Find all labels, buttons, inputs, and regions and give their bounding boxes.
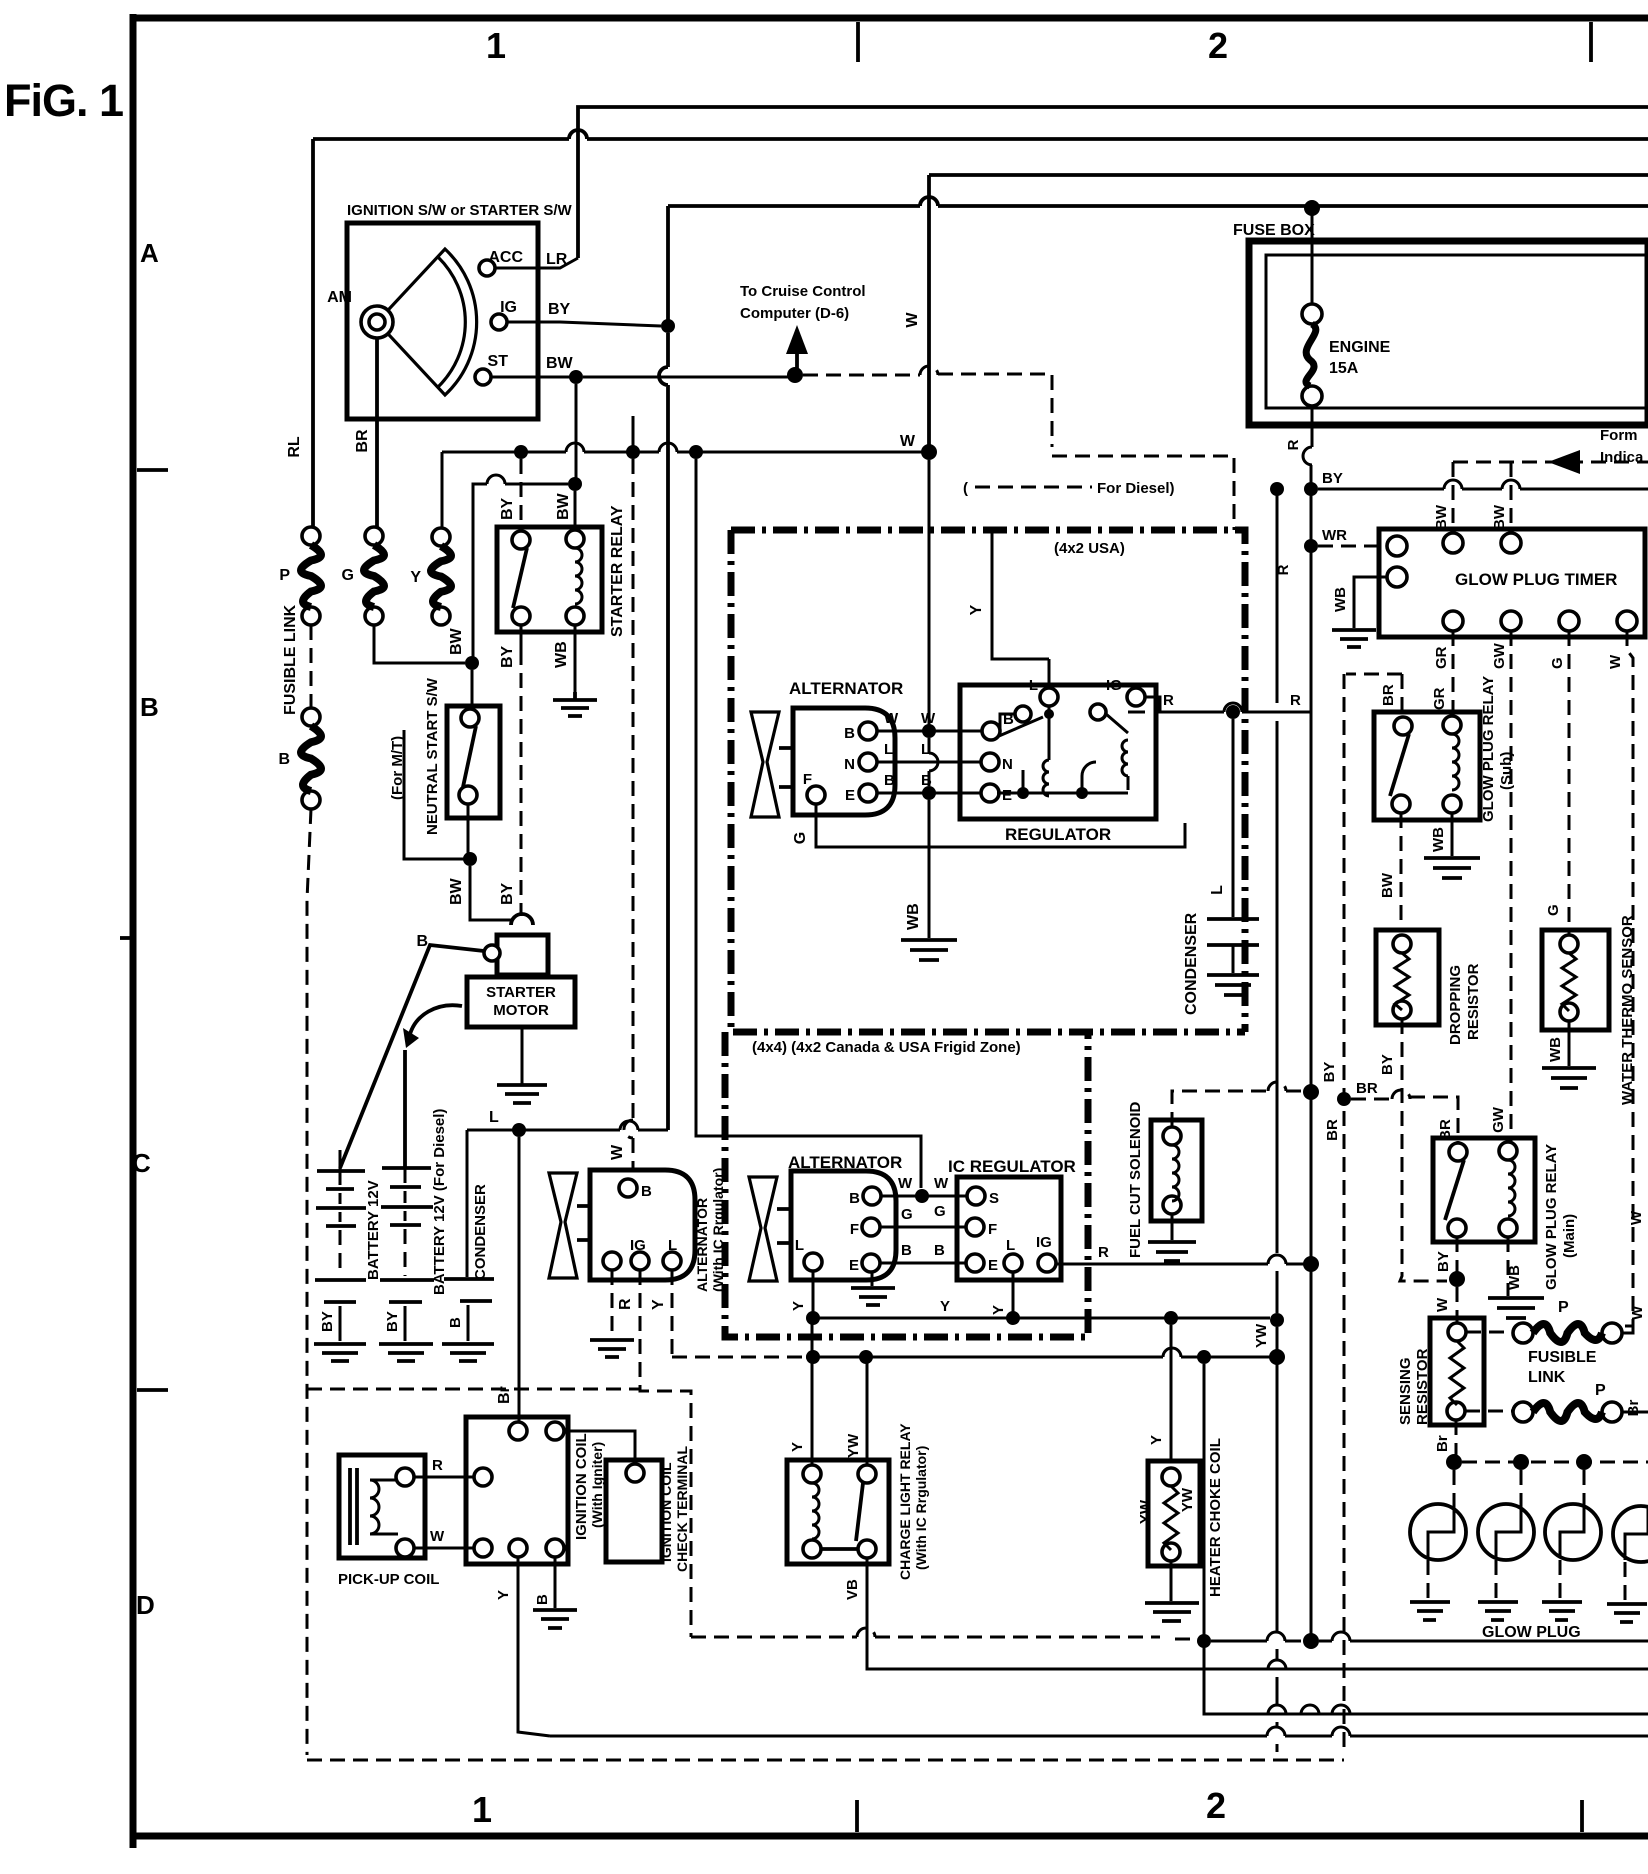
charge relay coil: [812, 1483, 819, 1539]
wire BW x=575 dot down to starter relay: [574, 491, 577, 528]
alternator2 terminal IG: [631, 1252, 649, 1270]
svg-text:BY: BY: [384, 1311, 401, 1332]
wire R dashed from IG: [640, 1270, 691, 1637]
charge relay terminal BR: [858, 1540, 876, 1558]
dashed boundary bottom y=1760: [307, 1759, 1344, 1762]
svg-text:CHECK TERMINAL: CHECK TERMINAL: [674, 1446, 690, 1572]
ignition switch rotor sector: [377, 249, 477, 395]
svg-text:BR: BR: [1356, 1080, 1378, 1097]
wire W to IC regulator S: [881, 1195, 967, 1198]
svg-text:S: S: [989, 1190, 999, 1207]
svg-text:E: E: [849, 1257, 859, 1274]
ground condenser2: [1207, 975, 1259, 995]
ground timer WB: [1332, 630, 1376, 647]
wire BY from relay BL down to starter solenoid: [520, 625, 523, 650]
wire For M/T bracket: [404, 730, 464, 859]
svg-text:CONDENSER: CONDENSER: [472, 1184, 489, 1280]
regulator box: [960, 685, 1156, 819]
junction dot Y x=1013: [1006, 1311, 1020, 1325]
wire fuel cut solenoid feed dashed: [1172, 1082, 1304, 1127]
wire W vertical x=929 down to junction y=452: [927, 175, 931, 452]
wire BW dashed vertical 1: [1452, 462, 1455, 534]
svg-text:P: P: [1558, 1299, 1569, 1316]
svg-text:BR: BR: [1380, 684, 1397, 706]
pick-up coil box: [339, 1455, 425, 1558]
wire BY main relay BL down to dot: [1456, 1237, 1459, 1272]
svg-text:B: B: [447, 1317, 464, 1328]
wire W dashed timer down right side: [1621, 631, 1633, 1326]
wire Br from link2 right: [1622, 1411, 1648, 1414]
junction dot x=1277 on BY line: [1270, 482, 1284, 496]
bus glow plug dashed y=1462: [1462, 1461, 1648, 1464]
svg-text:B: B: [140, 692, 159, 722]
svg-text:BATTERY 12V: BATTERY 12V: [365, 1180, 382, 1280]
wire BY bus y=206 from x=668: [668, 197, 1648, 206]
wire BY dashed dropping resistor down: [1400, 1019, 1447, 1281]
battery 1 12V plates: [316, 1171, 366, 1226]
svg-text:W: W: [1607, 654, 1624, 669]
svg-text:E: E: [1002, 787, 1012, 804]
wire R from IC regulator IG to R bus: [1056, 1255, 1304, 1264]
svg-text:L: L: [884, 741, 893, 758]
ground battery 1: [314, 1344, 366, 1361]
svg-text:R: R: [432, 1457, 443, 1474]
svg-text:RESISTOR: RESISTOR: [1414, 1348, 1431, 1425]
alternator2 terminal E: [603, 1252, 621, 1270]
svg-text:IGNITION S/W or STARTER S/W: IGNITION S/W or STARTER S/W: [347, 202, 573, 219]
ignition coil terminal bottom B: [546, 1539, 564, 1557]
heater choke terminals: [1162, 1468, 1180, 1486]
glow plug 1: [1410, 1504, 1466, 1560]
IC regulator terminal F: [966, 1218, 984, 1236]
dropping resistor box: [1376, 930, 1439, 1025]
fuse ENGINE 15A element: [1306, 324, 1316, 386]
wire ACC to LR riser: [495, 258, 578, 268]
svg-text:BY: BY: [548, 301, 571, 318]
junction dot cruise control: [787, 367, 803, 383]
svg-text:R: R: [1098, 1244, 1109, 1261]
svg-text:STARTER RELAY: STARTER RELAY: [609, 505, 626, 637]
frame tick left y=1390: [137, 1388, 168, 1392]
wire dashed P-link to B-link: [310, 625, 313, 708]
svg-text:W: W: [1629, 1305, 1646, 1320]
wire GW dashed timer to main relay: [1510, 631, 1513, 1142]
svg-text:BW: BW: [448, 627, 465, 655]
svg-text:HEATER CHOKE COIL: HEATER CHOKE COIL: [1207, 1438, 1224, 1597]
wire G dashed timer to water thermo sensor: [1568, 631, 1571, 935]
svg-text:FUSIBLE: FUSIBLE: [1528, 1349, 1597, 1366]
ignition coil terminal left W: [474, 1539, 492, 1557]
svg-text:GLOW PLUG TIMER: GLOW PLUG TIMER: [1455, 570, 1617, 589]
junction dot W x=929 y=452: [921, 444, 937, 460]
main relay terminal BL: [1448, 1219, 1466, 1237]
fusible link Br terminals: [1513, 1402, 1533, 1422]
junction dot BY/W x=1457 y=1279: [1449, 1271, 1465, 1287]
wire WB from relay BR to ground: [574, 625, 577, 692]
wire BR dashed boundary from sub relay top: [1344, 674, 1402, 1755]
wire x=929 between B and E lines with hop: [929, 738, 938, 786]
svg-text:FUSIBLE LINK: FUSIBLE LINK: [282, 604, 299, 715]
svg-text:BW: BW: [555, 492, 572, 520]
wire Y from regulator L up: [992, 530, 1049, 688]
svg-text:W: W: [1434, 1297, 1451, 1312]
wire For-Diesel dashed y=456 to corner x=1234: [1052, 456, 1234, 530]
timer terminal BW1: [1443, 533, 1463, 553]
ground heater choke: [1145, 1603, 1199, 1621]
svg-text:G: G: [792, 832, 809, 844]
svg-text:G: G: [901, 1206, 913, 1223]
fusible link Y body: [431, 546, 451, 607]
svg-text:NEUTRAL START S/W: NEUTRAL START S/W: [424, 677, 441, 835]
neutral start switch box: [447, 706, 500, 818]
wire GR dashed timer to sub relay: [1452, 631, 1455, 715]
battery 2 12V (For Diesel) plates: [381, 1168, 433, 1225]
svg-text:BY: BY: [499, 882, 516, 905]
fusible link W terminals: [1513, 1323, 1533, 1343]
box (4x4) boundary: [725, 1032, 1088, 1337]
svg-text:BY: BY: [499, 497, 516, 520]
wire E-B with B labels: [877, 792, 986, 795]
svg-text:L: L: [1029, 677, 1038, 694]
ignition switch box: [347, 223, 538, 419]
svg-text:BW: BW: [1433, 504, 1450, 530]
junction dot fuse feed y=208: [1304, 200, 1320, 216]
svg-text:Y: Y: [940, 1298, 950, 1315]
wire Br from L junction down to ignition coil: [518, 1137, 521, 1424]
junction dot W x=929 y=731: [922, 724, 936, 738]
svg-text:L: L: [489, 1109, 499, 1126]
svg-text:BATTERY 12V (For Diesel): BATTERY 12V (For Diesel): [431, 1109, 448, 1295]
wire WB sub relay to ground: [1451, 813, 1454, 856]
svg-text:B: B: [278, 751, 290, 768]
svg-text:IC REGULATOR: IC REGULATOR: [948, 1157, 1076, 1176]
starter relay terminal BR: [566, 607, 584, 625]
svg-text:R: R: [1163, 692, 1174, 709]
alternator 1b pulley: [749, 1177, 777, 1281]
junction dot L x=519 y=1130: [512, 1123, 526, 1137]
svg-text:RL: RL: [286, 436, 303, 458]
junction dot x=472 y=663: [465, 656, 479, 670]
starter relay box: [497, 527, 602, 632]
starter relay terminal TR: [566, 530, 584, 548]
svg-text:CONDENSER: CONDENSER: [1183, 912, 1200, 1015]
fuse box inner: [1266, 255, 1648, 408]
neutral start switch arm: [463, 726, 476, 787]
svg-text:W: W: [430, 1528, 445, 1545]
wire Y from alternator1b L down: [812, 1271, 815, 1318]
IC regulator box: [957, 1177, 1061, 1280]
svg-text:(With IC Rrgulator): (With IC Rrgulator): [913, 1446, 929, 1570]
wire G to IC regulator F: [880, 1226, 966, 1229]
dropping resistor element: [1395, 953, 1409, 1010]
wire W down to sensing resistor: [1456, 1287, 1459, 1322]
junction dot BR x=1344 y=1099: [1337, 1092, 1351, 1106]
fusible link Y terminals: [432, 528, 450, 546]
battery 1 lower plates: [315, 1280, 366, 1302]
wire WB x=929 down to ground: [928, 800, 931, 938]
svg-text:YW: YW: [1179, 1487, 1196, 1512]
svg-text:B: B: [901, 1242, 912, 1259]
ground starter motor: [497, 1085, 547, 1103]
alternator1b terminal B: [863, 1187, 881, 1205]
fuse box outer: [1249, 241, 1648, 425]
svg-text:ALTERNATOR: ALTERNATOR: [789, 679, 903, 698]
svg-text:GW: GW: [1490, 1106, 1507, 1133]
wire BW dashed vertical 2: [1510, 462, 1513, 534]
svg-text:WB: WB: [905, 903, 922, 930]
condenser 2 plates: [1207, 919, 1259, 945]
wire W from link1 right up: [1622, 1326, 1633, 1333]
svg-text:BW: BW: [1491, 504, 1508, 530]
starter relay terminal BL: [512, 607, 530, 625]
water thermo element: [1562, 953, 1576, 1011]
svg-text:FUSE BOX: FUSE BOX: [1233, 222, 1315, 239]
wire B to battery 1: [340, 945, 484, 1168]
svg-text:WATER THERMO SENSOR: WATER THERMO SENSOR: [1619, 915, 1636, 1105]
svg-text:For Diesel): For Diesel): [1097, 480, 1175, 497]
svg-text:2: 2: [1206, 1785, 1226, 1826]
bus solid y=1641 right: [1211, 1632, 1648, 1641]
ground alternator1b E: [871, 1272, 874, 1286]
heater choke element: [1164, 1486, 1178, 1550]
svg-text:P: P: [279, 567, 290, 584]
svg-text:Y: Y: [650, 1299, 667, 1310]
ignition coil box: [466, 1417, 568, 1564]
wire W bus y=175 to right edge: [929, 173, 1648, 177]
svg-text:W: W: [934, 1175, 949, 1192]
IC regulator terminal S: [967, 1187, 985, 1205]
svg-text:IG: IG: [1106, 677, 1122, 694]
alternator1 terminal E: [859, 784, 877, 802]
bus VB y=1669 hops: [867, 1660, 1648, 1669]
junction dot x=471 y=859: [463, 852, 477, 866]
svg-text:G: G: [342, 567, 354, 584]
junction dot BY y=489: [1304, 482, 1318, 496]
wire WR dashed to timer: [1318, 545, 1388, 548]
condenser wire down: [466, 1130, 469, 1277]
svg-text:P: P: [1595, 1382, 1606, 1399]
condenser plates: [444, 1279, 494, 1301]
svg-text:BY: BY: [1435, 1251, 1452, 1272]
ground main relay: [1488, 1298, 1544, 1318]
wire Y dashed from L to YW bus: [671, 1270, 674, 1357]
wire R pickup to ignition coil: [414, 1476, 474, 1479]
svg-text:FUEL CUT SOLENOID: FUEL CUT SOLENOID: [1127, 1101, 1144, 1258]
svg-text:WB: WB: [553, 641, 570, 668]
pick-up coil terminal W: [396, 1539, 414, 1557]
svg-text:R: R: [1285, 439, 1302, 450]
glow plug 3: [1545, 1504, 1601, 1560]
wire E dashed to ground: [611, 1270, 614, 1338]
neutral start switch terminal bottom: [459, 786, 477, 804]
junction dot condenser2 R line: [1226, 705, 1240, 719]
frame tick top x=1591: [1589, 22, 1593, 62]
wire x=668 continues down, hops ST line and bus: [659, 333, 668, 1130]
starter relay terminal TL: [512, 531, 530, 549]
svg-text:DROPPING: DROPPING: [1447, 965, 1464, 1045]
IC regulator terminal L: [1004, 1254, 1022, 1272]
water thermo terminals: [1560, 935, 1578, 953]
svg-text:G: G: [1549, 657, 1566, 669]
wire AM/BR down from box to fusible link G: [375, 338, 379, 528]
svg-text:ALTERNATOR: ALTERNATOR: [788, 1153, 902, 1172]
wire WB main relay to ground: [1507, 1237, 1510, 1296]
bus YW y=1357 solid right portion: [806, 1348, 1270, 1357]
wire L to condenser2: [1232, 719, 1235, 917]
wire BR dashed y=1099 to main relay: [1351, 1090, 1458, 1142]
wire sensing bottom to link2: [1465, 1410, 1513, 1413]
svg-text:GLOW PLUG: GLOW PLUG: [1482, 1624, 1581, 1641]
cruise control arrow: [795, 352, 799, 373]
wire BY dashed x=521 bus to starter relay: [520, 459, 523, 528]
svg-text:L: L: [1006, 1237, 1015, 1254]
svg-text:W: W: [900, 433, 916, 450]
starter motor box: [467, 977, 575, 1027]
svg-text:R: R: [1290, 692, 1301, 709]
dashed For-Diesel line y=1389: [307, 1388, 641, 1391]
fusible link G body: [364, 545, 384, 607]
junction dot Y at x=1277: [1270, 1313, 1284, 1327]
svg-text:E: E: [988, 1257, 998, 1274]
wire RL bus y=139 with hop over x=578: [313, 130, 1648, 139]
junction dot Y x=813: [806, 1311, 820, 1325]
svg-text:MOTOR: MOTOR: [493, 1002, 549, 1019]
main relay terminal TL: [1449, 1143, 1467, 1161]
svg-text:BY: BY: [1322, 470, 1343, 487]
wire heater choke ground: [1170, 1561, 1173, 1601]
sub relay switch arm: [1390, 734, 1409, 796]
ignition coil terminal bottom Y: [509, 1539, 527, 1557]
svg-text:F: F: [988, 1221, 997, 1238]
wire G from F around to regulator: [816, 804, 1185, 847]
starter solenoid terminal bump: [511, 914, 533, 925]
wire RL vertical from bus to fusible link P: [311, 139, 315, 528]
bus YW y=1714 hops: [1215, 1705, 1648, 1714]
junction dot heater choke feed: [1164, 1311, 1178, 1325]
junction dot W x=633 y=452: [626, 445, 640, 459]
wire x=696 from bus down to 4x4 box W feed: [696, 459, 921, 1188]
wire Br sensing resistor to glow plug bus: [1455, 1420, 1458, 1455]
svg-text:YW: YW: [1137, 1499, 1154, 1524]
svg-text:B: B: [849, 1190, 860, 1207]
sub relay terminal BL: [1392, 795, 1410, 813]
svg-text:N: N: [844, 756, 855, 773]
wire B-B with W labels: [877, 730, 986, 733]
svg-text:ALTERNATOR: ALTERNATOR: [694, 1198, 710, 1292]
fusible link Br body: [1533, 1403, 1602, 1421]
alternator with IC regulator pulley: [549, 1173, 577, 1278]
wire BW down to neutral start switch: [471, 670, 474, 706]
regulator terminal IG: [1127, 688, 1145, 706]
ground fuel cut solenoid: [1148, 1242, 1196, 1261]
wire fuse feed into box: [1311, 208, 1314, 305]
svg-text:Y: Y: [790, 1301, 807, 1311]
svg-text:GR: GR: [1433, 646, 1450, 669]
charge relay terminal BL: [803, 1540, 821, 1558]
starter motor solenoid box: [497, 935, 548, 975]
junction dot glow bus 3: [1576, 1454, 1592, 1470]
charge relay terminal TR: [858, 1465, 876, 1483]
charge relay terminal TL: [803, 1465, 821, 1483]
svg-text:(With Igniter): (With Igniter): [589, 1442, 605, 1528]
svg-text:(Sub): (Sub): [1498, 752, 1515, 790]
ground condenser: [442, 1344, 494, 1361]
svg-text:(Main): (Main): [1561, 1214, 1578, 1258]
svg-text:R: R: [617, 1298, 634, 1310]
dropping resistor terminals: [1393, 935, 1411, 953]
svg-text:BY: BY: [1321, 1062, 1338, 1083]
frame tick left y=470: [137, 468, 168, 472]
svg-text:B: B: [534, 1594, 551, 1605]
timer terminal GR: [1443, 611, 1463, 631]
wire Y from IC regulator L to Y bus: [1012, 1272, 1015, 1318]
pick-up coil core bars: [350, 1468, 357, 1545]
svg-text:GW: GW: [1491, 642, 1508, 669]
starter solenoid B terminal: [484, 945, 500, 961]
svg-text:ACC: ACC: [488, 249, 523, 266]
wire B ignition coil to ground: [554, 1557, 557, 1608]
svg-text:Y: Y: [789, 1442, 806, 1452]
svg-text:PICK-UP COIL: PICK-UP COIL: [338, 1571, 439, 1588]
alternator 1 body: [793, 708, 895, 815]
svg-text:B: B: [934, 1242, 945, 1259]
fuel cut solenoid coil: [1172, 1145, 1179, 1201]
fusible link G terminals: [365, 527, 383, 545]
svg-text:WB: WB: [1547, 1037, 1564, 1062]
fuel cut solenoid box: [1151, 1120, 1202, 1221]
wire W dashed x=633 from bus down to alternator B: [624, 459, 633, 1168]
svg-text:BW: BW: [1379, 872, 1396, 898]
svg-text:BW: BW: [448, 877, 465, 905]
junction dot x=1215 y=1641: [1197, 1634, 1211, 1648]
svg-text:REGULATOR: REGULATOR: [1005, 825, 1111, 844]
svg-text:C: C: [132, 1148, 151, 1178]
timer terminal W: [1617, 611, 1637, 631]
wire starter motor to ground: [521, 1027, 524, 1085]
alternator1b terminal L: [804, 1253, 822, 1271]
svg-text:YW: YW: [845, 1433, 862, 1458]
svg-text:SENSING: SENSING: [1397, 1357, 1414, 1425]
fusible link B body: [301, 726, 321, 791]
wire fuel cut solenoid ground: [1171, 1214, 1174, 1240]
svg-text:B: B: [641, 1183, 652, 1200]
wire Y-link riser x=442: [441, 452, 444, 528]
ignition coil check terminal box: [606, 1460, 662, 1562]
wire Y charge relay to Y bus: [811, 1318, 814, 1465]
svg-text:FiG. 1: FiG. 1: [4, 75, 123, 126]
junction dot IG/BY x=668 y=326: [661, 319, 675, 333]
wire B to IC regulator E: [880, 1262, 967, 1265]
wire WB water thermo to ground: [1568, 1021, 1571, 1066]
fusible link P terminals: [302, 527, 320, 545]
junction dot YW x=813: [806, 1350, 820, 1364]
ignition coil terminal top right: [546, 1422, 564, 1440]
starter motor field wire to battery 2: [405, 1005, 462, 1168]
svg-text:STARTER: STARTER: [486, 984, 556, 1001]
svg-text:B: B: [844, 725, 855, 742]
fusible link W body (horizontal S): [1533, 1324, 1602, 1342]
junction dot YW x=1215: [1197, 1350, 1211, 1364]
ground alternator2 E: [590, 1340, 634, 1357]
regulator internal coil 1: [1043, 706, 1049, 796]
svg-text:W: W: [609, 1144, 626, 1160]
svg-text:CHARGE LIGHT RELAY: CHARGE LIGHT RELAY: [897, 1423, 913, 1580]
fuse ENGINE 15A terminals: [1302, 304, 1322, 324]
sensing resistor element: [1450, 1341, 1464, 1405]
water thermo sensor box: [1542, 930, 1609, 1030]
svg-text:(4x2 USA): (4x2 USA): [1054, 540, 1125, 557]
alternator 1 pulley: [751, 712, 779, 817]
